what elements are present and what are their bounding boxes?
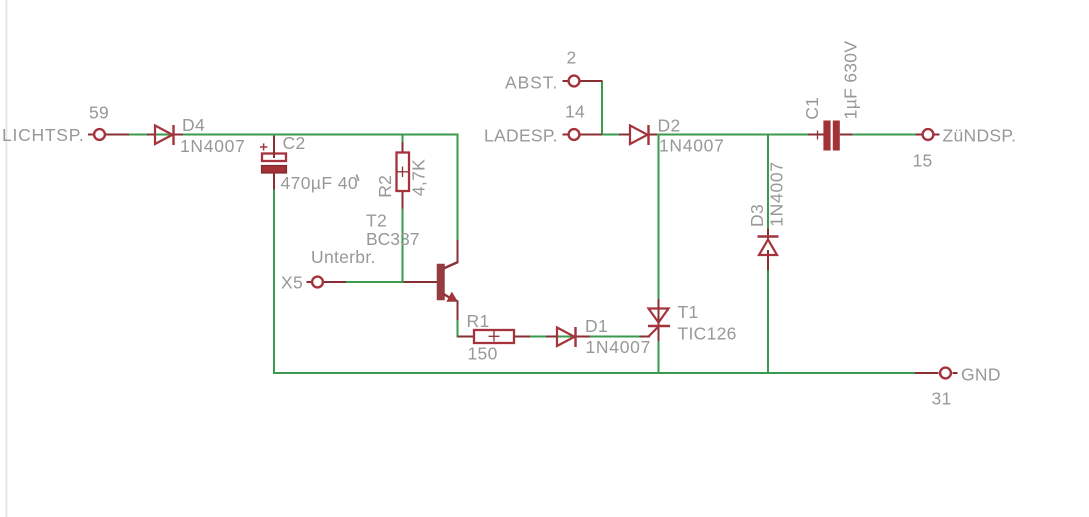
diode D3 xyxy=(758,237,779,256)
label 1uF 630V rotated xyxy=(841,41,861,120)
svg-text:C1: C1 xyxy=(802,97,822,120)
svg-text:C2: C2 xyxy=(283,133,306,153)
label C2 xyxy=(283,133,306,153)
resistor R2 xyxy=(397,153,410,192)
label LICHTSP. xyxy=(2,125,85,145)
label 59 xyxy=(89,103,109,123)
wire D3 column vertical lower xyxy=(767,270,769,374)
label 2 xyxy=(567,47,577,67)
wire C2 column vertical lower xyxy=(273,189,275,373)
label Unterbr. xyxy=(311,247,376,267)
wire T1 column vertical xyxy=(658,135,660,374)
label 4,7K rotated xyxy=(409,159,429,196)
capacitor C2 lead into plate xyxy=(273,136,275,158)
label GND xyxy=(961,365,1001,385)
svg-text:T2: T2 xyxy=(366,211,387,231)
wire emitter to R1 horizontal xyxy=(458,336,475,338)
resistor R2 pins xyxy=(402,142,404,209)
wire collector column vertical xyxy=(457,135,459,264)
transistor T2 collector pin xyxy=(457,240,459,263)
svg-text:ABST.: ABST. xyxy=(505,72,558,92)
terminal ZUENDSP pin stub xyxy=(916,134,940,136)
wire emitter column vertical xyxy=(457,300,459,338)
resistor R1 xyxy=(474,330,514,343)
capacitor C2 polarity plus xyxy=(260,143,267,150)
label T1 xyxy=(678,302,699,322)
wire R2 column vertical xyxy=(402,135,404,283)
svg-text:1N4007: 1N4007 xyxy=(180,136,246,156)
svg-text:D2: D2 xyxy=(658,116,681,136)
label D2 xyxy=(658,116,681,136)
svg-text:LADESP.: LADESP. xyxy=(484,126,558,146)
capacitor C1 xyxy=(823,121,839,151)
svg-text:4,7K: 4,7K xyxy=(409,159,429,196)
svg-text:D4: D4 xyxy=(182,115,205,135)
terminal LADESP circle xyxy=(569,129,580,140)
terminal ZUENDSP circle xyxy=(923,129,934,140)
svg-text:X5: X5 xyxy=(281,272,303,292)
thyristor T1 xyxy=(648,309,670,337)
label R1 xyxy=(467,311,490,331)
terminal LICHTSP circle xyxy=(94,129,105,140)
transistor T2 emitter pin xyxy=(457,301,459,320)
wire D3 column vertical upper xyxy=(767,135,769,230)
svg-text:1N4007: 1N4007 xyxy=(659,136,725,156)
label 1N4007 D3 rotated xyxy=(767,161,787,227)
svg-text:1N4007: 1N4007 xyxy=(767,161,787,227)
label D4 xyxy=(182,115,205,135)
svg-text:31: 31 xyxy=(932,388,952,408)
diode D4 xyxy=(155,125,174,145)
svg-text:59: 59 xyxy=(89,103,109,123)
label ZUENDSP. xyxy=(943,126,1017,146)
diode D1 xyxy=(557,327,576,347)
label 1N4007 D1 xyxy=(586,337,652,357)
svg-text:D1: D1 xyxy=(585,316,608,336)
terminal LICHTSP pin stub xyxy=(88,134,129,136)
svg-text:2: 2 xyxy=(567,47,577,67)
capacitor C2 bottom lead xyxy=(273,173,275,190)
label 1N4007 D4 xyxy=(180,136,246,156)
diode D3 pins xyxy=(767,229,769,271)
svg-text:R2: R2 xyxy=(375,175,395,198)
terminal GND pin stub xyxy=(915,372,958,374)
svg-text:GND: GND xyxy=(961,365,1001,385)
svg-text:T1: T1 xyxy=(678,302,699,322)
terminal GND circle xyxy=(940,368,951,379)
svg-text:Unterbr.: Unterbr. xyxy=(311,247,376,267)
svg-text:R1: R1 xyxy=(467,311,490,331)
terminal X5 pin stub xyxy=(307,281,347,283)
svg-text:D3: D3 xyxy=(747,204,767,227)
label D1 xyxy=(585,316,608,336)
svg-text:ZüNDSP.: ZüNDSP. xyxy=(943,126,1017,146)
wire D2 to C1 horizontal xyxy=(655,134,809,136)
label C1 rotated xyxy=(802,97,822,120)
label LADESP. xyxy=(484,126,558,146)
label R2 rotated xyxy=(375,175,395,198)
label 150 xyxy=(468,344,498,364)
label X5 xyxy=(281,272,303,292)
capacitor C1 pins xyxy=(808,131,853,140)
left window edge line xyxy=(6,0,8,517)
wire ABST stub and drop xyxy=(601,81,603,135)
wire LADESP to D2 xyxy=(602,134,630,136)
diode D2 pins xyxy=(619,134,657,136)
svg-text:150: 150 xyxy=(468,344,498,364)
label 14 xyxy=(565,102,585,122)
svg-text:LICHTSP.: LICHTSP. xyxy=(2,125,85,145)
svg-text:1µF 630V: 1µF 630V xyxy=(841,41,861,120)
thyristor T1 anode lead xyxy=(658,299,660,341)
svg-text:15: 15 xyxy=(913,151,933,171)
label 31 xyxy=(932,388,952,408)
diode D4 pins xyxy=(147,134,183,136)
wire base net horizontal xyxy=(324,281,437,283)
label T2 xyxy=(366,211,387,231)
label 15 xyxy=(913,151,933,171)
terminal X5 circle xyxy=(312,277,323,288)
wire C1 to ZUENDSP xyxy=(852,134,917,136)
wire R1 to T1 gate horizontal xyxy=(514,336,640,338)
diode D1 pins xyxy=(546,336,650,338)
label TIC126 xyxy=(678,324,737,344)
label D3 rotated xyxy=(747,204,767,227)
wire C2 column vertical upper xyxy=(273,135,275,138)
label 470uF 40V clipped xyxy=(281,173,359,193)
resistor R1 pins xyxy=(514,336,530,338)
wire net LICHTSP top horizontal xyxy=(128,134,459,136)
diode D2 xyxy=(630,125,649,145)
label BC337 xyxy=(366,229,420,249)
terminal ABST pin stub xyxy=(563,80,603,82)
capacitor C2 top plate xyxy=(262,154,286,162)
capacitor C2 bottom plate xyxy=(262,166,287,174)
label ABST. xyxy=(505,72,558,92)
terminal LADESP pin stub xyxy=(563,134,603,136)
label 1N4007 D2 xyxy=(659,136,725,156)
transistor T2 xyxy=(437,262,458,302)
svg-text:470µF 40: 470µF 40 xyxy=(281,173,359,193)
wire ground rail bottom xyxy=(273,372,915,374)
svg-text:14: 14 xyxy=(565,102,585,122)
svg-text:TIC126: TIC126 xyxy=(678,324,737,344)
terminal ABST circle xyxy=(569,76,580,87)
svg-text:1N4007: 1N4007 xyxy=(586,337,652,357)
transistor T2 base pin xyxy=(404,281,438,283)
